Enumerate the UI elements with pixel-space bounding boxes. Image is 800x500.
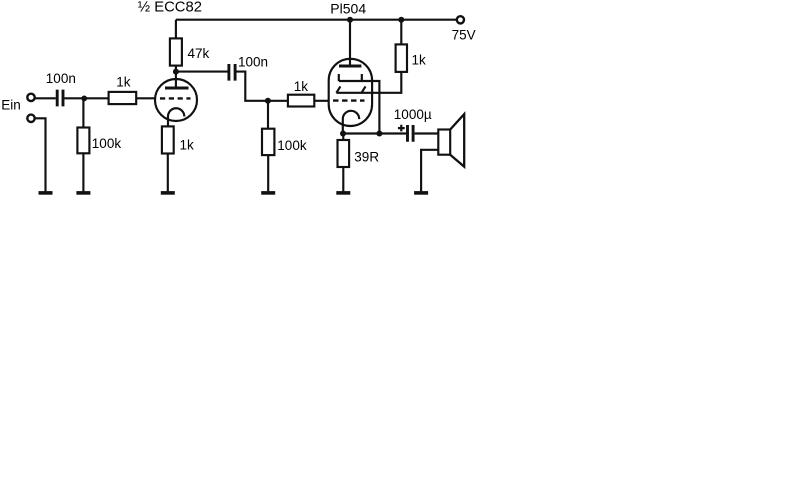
svg-text:100n: 100n [238,54,268,69]
svg-text:1000µ: 1000µ [394,107,432,122]
svg-text:1k: 1k [116,75,131,90]
svg-text:39R: 39R [354,149,379,164]
svg-text:100k: 100k [92,136,122,151]
svg-text:Ein: Ein [1,98,21,113]
svg-text:½ ECC82: ½ ECC82 [138,0,202,15]
svg-text:100n: 100n [46,71,76,86]
svg-text:1k: 1k [180,137,195,152]
svg-text:47k: 47k [188,46,210,61]
svg-text:1k: 1k [412,52,427,67]
svg-text:75V: 75V [452,28,476,43]
svg-text:1k: 1k [294,79,309,94]
svg-text:100k: 100k [277,138,307,153]
svg-text:Pl504: Pl504 [330,0,366,16]
